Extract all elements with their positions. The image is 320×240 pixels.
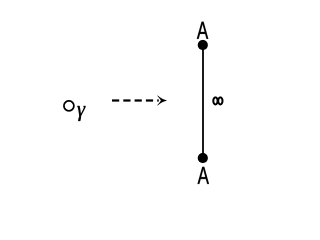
- label infinity (left lobe): [213, 97, 217, 104]
- circle O (small circle of point O_gamma): [64, 101, 74, 111]
- wire dashed arrow shaft: [112, 99, 159, 101]
- segment AA (vertical line): [202, 45, 204, 158]
- label gamma (subscript of O): [77, 106, 85, 121]
- point A bottom (filled dot): [198, 153, 208, 163]
- label infinity (right lobe): [218, 97, 222, 104]
- label A top: [197, 22, 208, 39]
- label A bottom: [198, 167, 209, 184]
- arrowhead of dashed arrow: [158, 96, 167, 105]
- point A top (filled dot): [198, 40, 208, 50]
